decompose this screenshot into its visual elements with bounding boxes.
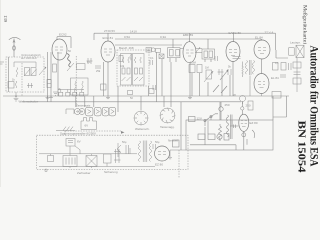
svg-text:139: 139 [3,15,8,23]
svg-text:50µ: 50µ [155,140,160,144]
svg-text:0,1: 0,1 [150,56,154,60]
svg-text:0,5A: 0,5A [124,35,130,39]
svg-text:50µ: 50µ [122,140,127,144]
svg-text:EL 84: EL 84 [255,36,263,40]
svg-text:0,3A: 0,3A [160,35,166,39]
svg-text:EABC 80: EABC 80 [229,31,242,35]
svg-text:141V: 141V [130,30,137,34]
svg-text:1M: 1M [205,66,209,70]
svg-text:Meßgerätekartei: Meßgerätekartei [302,5,307,45]
svg-text:EZ 80: EZ 80 [155,163,163,167]
svg-text:BN 15054: BN 15054 [296,121,308,174]
svg-text:Sicherung: Sicherung [104,170,118,174]
svg-text:10k: 10k [120,64,125,68]
svg-text:0,1: 0,1 [275,61,279,65]
svg-text:Tastenagg.: Tastenagg. [160,125,175,129]
svg-text:Autoradio für Omnibus ESA: Autoradio für Omnibus ESA [308,46,320,167]
svg-text:Bandf. 468: Bandf. 468 [119,46,134,50]
svg-text:250: 250 [225,103,230,107]
svg-text:Wellensch.: Wellensch. [135,127,150,131]
svg-text:Lautspr.: Lautspr. [290,41,301,45]
svg-text:EL 84: EL 84 [271,76,279,80]
svg-text:EZ 80: EZ 80 [250,121,258,125]
svg-text:0,1: 0,1 [87,60,91,64]
svg-text:EBF 89: EBF 89 [183,33,193,37]
svg-text:12V: 12V [197,117,202,121]
svg-text:0,5M: 0,5M [190,61,196,65]
svg-text:EC92: EC92 [59,32,67,36]
svg-text:27±0,5V: 27±0,5V [104,29,115,33]
svg-text:27 V A: 27 V A [265,30,274,34]
svg-text:Netzteil: Netzteil [168,139,178,143]
svg-text:6V: 6V [85,124,89,128]
svg-text:ECH 81: ECH 81 [103,36,114,40]
svg-text:6V: 6V [77,140,81,144]
svg-text:Wellenschalter: Wellenschalter [19,100,39,104]
svg-text:25k: 25k [96,69,101,73]
svg-text:Zerhacker: Zerhacker [77,171,91,175]
svg-text:auf 1400 kHz: auf 1400 kHz [21,56,37,60]
svg-text:Tastensatz: Tastensatz [76,103,91,107]
svg-text:250: 250 [246,104,251,108]
svg-text:Spannungswandler 6/250V: Spannungswandler 6/250V [60,132,96,136]
